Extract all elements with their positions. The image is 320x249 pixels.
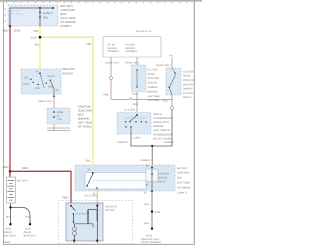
svg-text:JUMPER: JUMPER bbox=[148, 86, 158, 89]
svg-text:STARTER: STARTER bbox=[106, 205, 117, 208]
svg-text:STARTER: STARTER bbox=[158, 173, 169, 176]
svg-text:CLUTCH: CLUTCH bbox=[183, 92, 193, 95]
battery junction box label bbox=[61, 4, 77, 28]
svg-text:TAN/RED: TAN/RED bbox=[163, 141, 174, 144]
svg-text:DIGITAL: DIGITAL bbox=[153, 113, 163, 116]
svg-text:BLK: BLK bbox=[145, 222, 150, 225]
svg-text:LEFT SIDE: LEFT SIDE bbox=[148, 95, 161, 98]
svg-text:PEDAL): PEDAL) bbox=[183, 96, 192, 99]
central junction box label bbox=[78, 105, 92, 129]
starter solenoid windings bbox=[87, 203, 98, 241]
wire BLK: relay coil to ground bbox=[151, 191, 153, 228]
wire TAN/RED: DTR output merge to relay coil bbox=[131, 134, 172, 167]
wire RED: battery positive run (left vertical, horizontal, down to starter) bbox=[10, 26, 71, 203]
starter motor label bbox=[106, 205, 117, 212]
ST contact path bbox=[50, 80, 54, 96]
svg-text:START: START bbox=[47, 75, 55, 78]
svg-text:OF DASH): OF DASH) bbox=[148, 99, 160, 102]
svg-text:RED: RED bbox=[3, 28, 9, 32]
digital transmission range sensor label bbox=[153, 113, 173, 141]
starter solenoid contact bbox=[70, 205, 93, 228]
svg-text:RED/LT BLU: RED/LT BLU bbox=[106, 61, 120, 64]
starter motor relay contact bbox=[85, 169, 146, 204]
note box: transmission options bbox=[103, 30, 161, 57]
ground stubs under starter box bbox=[73, 241, 75, 244]
svg-text:CLUTCH: CLUTCH bbox=[148, 68, 158, 71]
clutch pedal position switch label bbox=[183, 70, 195, 99]
svg-text:SWITCH: SWITCH bbox=[183, 83, 193, 86]
node: battery negative junction bbox=[9, 206, 11, 208]
starter motor armature bbox=[73, 224, 77, 242]
svg-text:S134: S134 bbox=[155, 211, 161, 214]
svg-text:HOT AT: HOT AT bbox=[11, 10, 19, 13]
svg-text:POSITION: POSITION bbox=[183, 79, 195, 82]
inline connector (right col) bbox=[171, 107, 174, 110]
svg-text:POSITION: POSITION bbox=[148, 77, 160, 80]
connector bars below fuse box bbox=[47, 128, 70, 131]
svg-text:(BEHIND: (BEHIND bbox=[148, 90, 158, 93]
svg-text:CONNECT: CONNECT bbox=[126, 50, 139, 53]
splice S134 bbox=[151, 210, 153, 212]
svg-text:(LEFT SIDE: (LEFT SIDE bbox=[177, 182, 190, 185]
ground G102 bbox=[29, 223, 31, 225]
ignition switch internals bbox=[22, 70, 59, 96]
clutch pedal position switch jumper (dashed box) bbox=[132, 65, 147, 92]
wire: right option stub bbox=[171, 58, 173, 69]
inline connector (left col) bbox=[110, 77, 113, 80]
ground G101 bbox=[9, 223, 11, 225]
svg-text:PNK: PNK bbox=[104, 94, 109, 97]
svg-text:SWITCH: SWITCH bbox=[148, 82, 158, 85]
svg-text:COMPT): COMPT) bbox=[177, 191, 187, 194]
svg-text:TRANSMISSION: TRANSMISSION bbox=[153, 117, 172, 120]
svg-text:BLK: BLK bbox=[145, 203, 150, 206]
node: fuse tap junction bbox=[39, 7, 41, 9]
wire: middle option column bbox=[136, 57, 138, 65]
svg-text:(ABOVE: (ABOVE bbox=[183, 88, 193, 91]
svg-text:BATTERY): BATTERY) bbox=[4, 234, 16, 237]
starter motor relay battery junction box (dashed) bbox=[75, 165, 175, 191]
wire YEL: fuse5 output bbox=[40, 26, 93, 173]
wire: right column down bbox=[171, 95, 173, 108]
fuse F5 bbox=[39, 8, 53, 26]
svg-text:C1 4 (S/4): C1 4 (S/4) bbox=[124, 109, 135, 112]
ignition switch (dashed box) bbox=[21, 69, 61, 94]
svg-text:RED/LT BLU: RED/LT BLU bbox=[38, 100, 52, 103]
wire: battery feed inside junction box bbox=[10, 8, 53, 26]
wire BLK: battery negative bbox=[11, 203, 31, 224]
svg-text:RED: RED bbox=[133, 103, 138, 106]
svg-text:(LEFT SIDE OF: (LEFT SIDE OF bbox=[153, 129, 171, 132]
svg-text:BLK: BLK bbox=[6, 216, 11, 219]
node: BJB output terminal bbox=[9, 25, 11, 27]
svg-text:COMPT): COMPT) bbox=[61, 24, 72, 28]
svg-text:RED/LT BLU: RED/LT BLU bbox=[126, 61, 140, 64]
wire bus joining columns bbox=[111, 98, 172, 99]
svg-text:RED: RED bbox=[63, 195, 69, 199]
node: TAN/RED merge bbox=[151, 145, 153, 147]
svg-text:OF DASH): OF DASH) bbox=[78, 125, 91, 129]
svg-text:LOCK: LOCK bbox=[22, 83, 29, 86]
page frame bbox=[0, 0, 202, 1]
svg-text:CLUTCH: CLUTCH bbox=[183, 70, 193, 73]
clutch pedal position switch (dashed box) bbox=[166, 68, 181, 95]
clutch pedal position switch jumper label bbox=[148, 68, 161, 102]
svg-text:BOX: BOX bbox=[177, 177, 183, 180]
svg-text:PEDAL: PEDAL bbox=[183, 75, 192, 78]
starter motor relay label bbox=[158, 173, 169, 184]
central junction box (dashed) with fuse 44 bbox=[47, 108, 70, 124]
svg-text:ACC: ACC bbox=[23, 76, 28, 79]
svg-text:BATTERY: BATTERY bbox=[17, 180, 28, 183]
battery bbox=[6, 177, 15, 203]
svg-text:OFF: OFF bbox=[35, 87, 40, 90]
starter motor inner box bbox=[66, 203, 103, 241]
svg-text:TAN/RED: TAN/RED bbox=[140, 159, 151, 162]
svg-text:YEL: YEL bbox=[86, 159, 92, 163]
svg-text:TAN/RED: TAN/RED bbox=[117, 141, 128, 144]
node: ignition ST output bbox=[53, 95, 55, 97]
svg-text:YEL: YEL bbox=[34, 43, 40, 47]
svg-text:BLK: BLK bbox=[25, 216, 30, 219]
svg-text:50A: 50A bbox=[43, 15, 48, 19]
svg-text:GXW: GXW bbox=[14, 28, 21, 32]
svg-text:FRONT FENDER): FRONT FENDER) bbox=[141, 241, 161, 244]
digital transmission range sensor (dashed box) bbox=[117, 113, 151, 135]
battery junction box (bottom) label bbox=[177, 167, 191, 195]
svg-text:FUSE: FUSE bbox=[57, 111, 64, 114]
svg-text:YEL: YEL bbox=[33, 29, 39, 33]
svg-text:JUNCTION: JUNCTION bbox=[177, 172, 190, 175]
svg-text:ALL TIMES: ALL TIMES bbox=[11, 13, 23, 16]
node: feed end arrow bbox=[52, 7, 54, 9]
splice S128 bbox=[39, 36, 42, 39]
starter motor outer dashed box bbox=[59, 201, 133, 244]
svg-text:PEDAL: PEDAL bbox=[148, 73, 157, 76]
svg-text:RED: RED bbox=[22, 166, 28, 170]
svg-text:OF ENGINE: OF ENGINE bbox=[177, 186, 191, 189]
svg-text:RED/LT BLU: RED/LT BLU bbox=[157, 64, 171, 67]
ignition switch label bbox=[62, 67, 74, 75]
svg-text:YEL: YEL bbox=[169, 55, 174, 58]
svg-text:see Fig 21-14: see Fig 21-14 bbox=[136, 30, 152, 33]
svg-text:RED: RED bbox=[163, 99, 168, 102]
node: battery + junction bbox=[9, 170, 12, 173]
starter motor relay coil bbox=[144, 165, 158, 195]
svg-text:7.5A: 7.5A bbox=[57, 118, 62, 121]
svg-text:RELAY: RELAY bbox=[158, 181, 166, 184]
battery junction box (top, dashed) bbox=[8, 5, 58, 26]
rotor arrow bbox=[41, 77, 44, 88]
svg-text:YEL: YEL bbox=[86, 42, 92, 46]
svg-text:S128: S128 bbox=[31, 36, 37, 39]
svg-text:BATTERY): BATTERY) bbox=[24, 234, 36, 237]
svg-text:4 (S/4): 4 (S/4) bbox=[133, 137, 141, 140]
svg-text:SWITCH: SWITCH bbox=[62, 71, 73, 75]
svg-text:YEL/LT BLU: YEL/LT BLU bbox=[84, 195, 98, 198]
svg-text:P4803: P4803 bbox=[3, 241, 11, 244]
wire: jumper output down to DTR bbox=[136, 92, 138, 115]
svg-text:BATTERY: BATTERY bbox=[177, 167, 188, 170]
svg-text:RED: RED bbox=[3, 165, 9, 169]
wire RED/LT BLU to fuse 44 bbox=[53, 96, 55, 131]
ground G104 bbox=[151, 227, 153, 229]
svg-text:MOTOR: MOTOR bbox=[158, 177, 167, 180]
svg-text:CONNECT: CONNECT bbox=[108, 50, 121, 53]
svg-text:SENSOR: SENSOR bbox=[153, 125, 164, 128]
svg-text:ST: ST bbox=[56, 89, 60, 92]
svg-text:RANGE (DTR): RANGE (DTR) bbox=[153, 121, 169, 124]
svg-text:MOTOR: MOTOR bbox=[106, 209, 115, 212]
svg-text:TRANSMISSION): TRANSMISSION) bbox=[153, 133, 173, 136]
wire: left option column bbox=[110, 57, 112, 99]
